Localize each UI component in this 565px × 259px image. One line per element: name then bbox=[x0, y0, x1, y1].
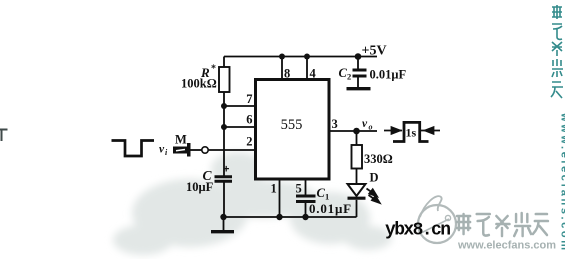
svg-text:3: 3 bbox=[332, 117, 338, 131]
resistor R*: body bbox=[219, 67, 230, 92]
svg-text:8: 8 bbox=[284, 67, 290, 81]
wire: C2 top lead bbox=[357, 57, 359, 69]
node: R bottom / pin7 junction bbox=[221, 103, 227, 109]
capacitor C2: plates bbox=[353, 70, 367, 76]
wire: pin 1 vertical bbox=[279, 179, 281, 217]
svg-text:D: D bbox=[370, 171, 379, 185]
wire: C2 bottom lead to ground bbox=[357, 78, 359, 88]
wire: 330R bottom lead to LED bbox=[356, 169, 358, 185]
svg-text:+: + bbox=[223, 164, 229, 176]
wire: R bottom lead down the bus bbox=[223, 92, 225, 176]
output pulse symbol 1s bbox=[393, 122, 429, 141]
LED D: triangle and cathode bar bbox=[348, 184, 366, 198]
wire: R top lead from rail bbox=[223, 57, 225, 68]
switch M: pushbutton block bbox=[173, 147, 187, 154]
wire: 330R top lead bbox=[356, 131, 358, 145]
ic U1: 555 timer box bbox=[256, 80, 330, 180]
wire: pin 6 horizontal bbox=[224, 126, 256, 128]
svg-text:i: i bbox=[165, 148, 168, 157]
node: pin1 / rail junction bbox=[276, 214, 282, 220]
svg-text:2: 2 bbox=[347, 72, 351, 82]
wire: top +5V rail bbox=[224, 56, 377, 58]
svg-text:7: 7 bbox=[246, 92, 252, 106]
left-edge stray mark bbox=[0, 130, 8, 142]
node: pin6 junction bbox=[221, 124, 227, 130]
node: open terminal circle at pin2 input bbox=[202, 147, 208, 153]
wire: C1 bottom lead bbox=[305, 203, 307, 217]
capacitor C (10uF): plates bbox=[215, 177, 233, 182]
svg-text:1: 1 bbox=[325, 192, 329, 202]
node: Vcc junction pin8 bbox=[279, 54, 285, 60]
svg-text:6: 6 bbox=[246, 113, 252, 127]
capacitor C1: plates bbox=[296, 196, 316, 202]
wire: pin 8 vertical bbox=[281, 57, 283, 82]
resistor 330R: body bbox=[352, 145, 363, 169]
pulse width arrows bbox=[384, 127, 440, 134]
svg-text:4: 4 bbox=[310, 67, 317, 81]
wire: pin 7 horizontal bbox=[224, 105, 256, 107]
watermark: teal right-edge strip glyphs bbox=[551, 5, 563, 98]
ground at bottom rail bbox=[211, 230, 234, 233]
wire: pin 5 vertical to C1 bbox=[305, 179, 307, 195]
svg-text:v: v bbox=[362, 118, 368, 130]
wire: bus below C to bottom rail bbox=[223, 183, 225, 218]
input waveform vi (negative pulse) bbox=[112, 141, 155, 157]
node: C / ground junction bbox=[220, 214, 226, 220]
wire: LED cathode to bottom rail bbox=[356, 200, 358, 217]
svg-text:555: 555 bbox=[281, 117, 303, 133]
svg-text:ybx8.cn: ybx8.cn bbox=[385, 221, 450, 241]
svg-text:330Ω: 330Ω bbox=[364, 152, 393, 166]
watermark: gray elecfans logo circle bbox=[418, 196, 456, 243]
node: C1 / rail junction bbox=[302, 214, 308, 220]
svg-text:1s: 1s bbox=[406, 126, 417, 140]
wire: bottom ground rail bbox=[224, 216, 357, 218]
ground below C2 bbox=[347, 87, 371, 90]
node: Vcc junction pin4 bbox=[304, 54, 310, 60]
svg-text:+5V: +5V bbox=[362, 44, 387, 59]
node: +5V / C2 junction bbox=[355, 53, 362, 60]
wire: pin 4 vertical bbox=[306, 57, 308, 82]
svg-text:www.elecfans.com: www.elecfans.com bbox=[559, 112, 565, 253]
svg-text:100kΩ: 100kΩ bbox=[181, 77, 217, 91]
svg-text:*: * bbox=[211, 64, 216, 75]
svg-text:0.01μF: 0.01μF bbox=[370, 68, 407, 82]
wire: ground stub below bottom rail bbox=[223, 217, 225, 230]
LED D: light arrows bbox=[367, 189, 380, 203]
wire: switch M to circle bbox=[191, 149, 202, 151]
svg-text:10μF: 10μF bbox=[186, 180, 214, 194]
svg-text:M: M bbox=[175, 133, 187, 147]
svg-text:0.01μF: 0.01μF bbox=[309, 201, 352, 216]
svg-text:5: 5 bbox=[296, 181, 302, 195]
watermark: gray brush text dianzifashaoyou bbox=[457, 213, 548, 236]
svg-text:www.elecfans.com: www.elecfans.com bbox=[457, 240, 556, 252]
background ghost blotches bbox=[113, 152, 392, 255]
svg-text:o: o bbox=[369, 123, 373, 132]
svg-text:2: 2 bbox=[246, 135, 252, 149]
wire: pin 3 output bbox=[329, 130, 377, 132]
node: output vo junction bbox=[353, 128, 360, 135]
svg-text:1: 1 bbox=[271, 181, 277, 195]
wire: pin 2 horizontal from switch circle bbox=[208, 149, 256, 151]
